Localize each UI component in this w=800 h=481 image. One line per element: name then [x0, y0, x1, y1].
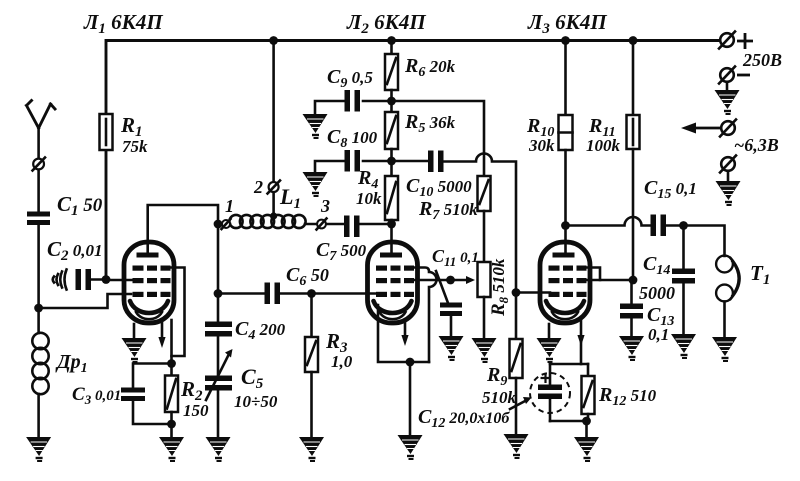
node: cathode / R2 / C3 junction	[167, 359, 176, 368]
wire: tube U3 shield to ground	[548, 324, 551, 338]
potentiometer R8 510k	[478, 262, 491, 297]
node A: antenna/ground rail junction	[34, 304, 43, 313]
svg-text:3: 3	[320, 196, 330, 216]
wire: R4 to anode node	[390, 220, 393, 252]
tube U2 grid rows	[376, 266, 414, 298]
tube U1 cathode arrow	[161, 322, 164, 338]
capacitor C9 0.5	[345, 90, 351, 112]
capacitor C11 0.1	[436, 271, 448, 303]
wire: control grid row to C2 node	[106, 279, 132, 282]
node: coil L1 tap	[270, 212, 277, 219]
capacitor C7 500	[344, 216, 350, 238]
ground	[715, 90, 740, 114]
wire: R9 to ground	[515, 378, 518, 434]
ground	[303, 172, 328, 196]
resistor R1 75k	[100, 114, 113, 150]
svg-text:R8 510k: R8 510k	[488, 258, 511, 317]
svg-text:510k: 510k	[482, 388, 517, 407]
ground	[159, 437, 184, 461]
wire: R3 to ground	[310, 372, 313, 437]
ground	[472, 338, 497, 362]
tube U1 inner heater arc	[136, 312, 162, 319]
capacitor C5 10-50 variable	[205, 376, 232, 382]
resistor R3 1.0	[305, 337, 318, 372]
wire: minus terminal to ground	[726, 82, 729, 90]
wire: C13 to ground	[630, 319, 633, 337]
node: R2 bottom junction	[167, 420, 176, 429]
wire: R2 bottom to ground	[170, 412, 173, 437]
tube U3 inner heater arc	[552, 312, 578, 319]
wire: antenna lead	[37, 128, 40, 212]
node: screen / C13 junction	[629, 276, 638, 285]
antenna	[27, 101, 56, 129]
label: minus sign	[737, 74, 750, 77]
svg-text:150: 150	[183, 401, 209, 420]
resistor R7 510k	[478, 176, 491, 211]
resistor R11 100k	[627, 115, 640, 149]
wire: junction to ground	[409, 362, 412, 435]
svg-text:C11 0,1: C11 0,1	[432, 246, 479, 269]
svg-text:30k: 30k	[528, 136, 555, 155]
wire: tube U3 cathode lead with arrow	[580, 320, 583, 364]
terminal 2 of coil L1	[269, 182, 279, 192]
svg-text:Л3 6К4П: Л3 6К4П	[527, 10, 607, 37]
svg-text:250В: 250В	[742, 50, 782, 70]
svg-text:Л2 6К4П: Л2 6К4П	[346, 10, 426, 37]
resistor R4 10k	[385, 176, 398, 220]
wire: C8 to ground	[315, 161, 345, 172]
capacitor C10 5000	[428, 151, 434, 173]
ground	[671, 334, 696, 358]
wire: bus down to R10	[564, 41, 567, 116]
wire: T1 to ground	[723, 302, 726, 338]
wire: beam row into bracket	[587, 279, 601, 282]
ground	[26, 437, 51, 461]
node: bus junction to coil tap (terminal 2)	[269, 36, 278, 45]
node: tube 3 grid / R9 junction	[512, 288, 521, 297]
ground	[303, 114, 328, 138]
terminal 1 of coil L1	[218, 223, 230, 226]
svg-text:5000: 5000	[639, 283, 675, 303]
svg-text:C2 0,01: C2 0,01	[47, 237, 103, 264]
wire: cathode loop below tube	[378, 305, 429, 362]
ground	[712, 337, 737, 361]
resistor R10 30k	[559, 115, 573, 150]
wire: C10 right with hop over R7 line, to R9 column	[444, 154, 517, 293]
wire: C3 bottom to R2 bottom	[133, 401, 172, 424]
capacitor C3 0.01	[121, 388, 145, 393]
node: tube 2 anode / C7 junction	[387, 220, 396, 229]
resistor R6 20k	[385, 54, 398, 90]
resistor R12 510	[587, 364, 590, 376]
tube U3 anode bar	[553, 253, 575, 258]
tube U2 cathode arrow	[404, 322, 407, 336]
wire: tank node to C6	[218, 292, 265, 295]
capacitor C4 200	[205, 322, 232, 328]
svg-text:1,0: 1,0	[331, 352, 353, 371]
wire: terminal 2 drop from bus	[272, 41, 275, 216]
ground	[537, 338, 562, 362]
wire: +250V supply bus	[106, 41, 720, 280]
svg-text:10÷50: 10÷50	[234, 392, 278, 411]
svg-text:0,1: 0,1	[648, 325, 669, 344]
svg-text:C3 0,01: C3 0,01	[72, 384, 121, 407]
wire: cathode lead down to R2	[170, 320, 173, 375]
wire: beam row to R8 wiper arrow	[414, 279, 466, 282]
wire: bus down to R6	[390, 41, 393, 55]
node: output junction	[679, 221, 688, 230]
wire: screen node down to C13	[630, 280, 633, 304]
svg-text:2: 2	[253, 177, 263, 197]
resistor R2 150	[165, 376, 178, 413]
wire: C2 to grid junction	[91, 278, 106, 281]
tube U1 (L1 6K4P) envelope	[124, 242, 174, 323]
tube U3 cathode arc	[546, 301, 584, 313]
wire: junction to tube 3 grid row	[516, 291, 550, 294]
capacitor C1 50	[27, 212, 50, 217]
terminal: 6.3V heater plug grounded	[721, 157, 735, 171]
svg-text:10k: 10k	[356, 189, 382, 208]
wire: screen grid row to cathode line	[168, 268, 185, 357]
tube U2 (L2 6K4P) envelope	[368, 242, 418, 323]
wire: heater terminal to ground	[727, 171, 730, 181]
node: C11 junction on wiper wire	[446, 276, 455, 285]
wire: junction right to C10	[392, 160, 429, 163]
svg-text:C1 50: C1 50	[57, 192, 103, 219]
wire: junction down to R9	[515, 293, 518, 340]
terminal: +250V plug	[720, 33, 734, 47]
wire: R11 down to screen node	[632, 149, 635, 280]
wire: C11 to ground	[450, 316, 453, 336]
capacitor C14 5000	[672, 269, 695, 275]
ground	[504, 434, 529, 458]
wire: C9 to ground	[315, 101, 345, 114]
wire: C15 to output node	[666, 224, 684, 227]
tube U2 cathode arc	[374, 301, 412, 313]
wire: screen row right with hop down to cathode loop	[414, 268, 437, 363]
capacitor C13 0.1	[620, 304, 643, 310]
ground	[574, 437, 599, 461]
wire: screen bracket to R11 node	[587, 268, 634, 281]
node: cathode ground junction	[406, 358, 415, 367]
ground	[716, 181, 741, 205]
wire: C7 to tube 2 anode node	[360, 223, 392, 226]
wire: tube U1 anode to coil terminal 1	[148, 205, 218, 253]
tube U1 grid rows	[133, 266, 171, 298]
node: cathode network ground junction	[582, 417, 591, 426]
wire: R6 junction right to R7	[392, 101, 485, 176]
wire: C14 to ground	[682, 284, 685, 335]
node: grid / R3 junction	[307, 289, 316, 298]
node: tank / C6 junction	[214, 289, 223, 298]
ground	[122, 338, 147, 362]
wire: choke to ground	[37, 394, 40, 437]
wire: R6 to R5	[390, 90, 393, 112]
wire: C6 to tube 2 grid	[280, 292, 377, 295]
wire: cathode network bottom rail	[550, 420, 588, 423]
tube U2 anode bar	[380, 253, 402, 258]
wire: anode to C15 with hop over R11 line	[566, 217, 652, 226]
node: R5/R4/C8/C10 junction	[387, 157, 396, 166]
wire: junction left to C9	[363, 100, 392, 103]
wire: R8 to ground	[483, 297, 486, 338]
chassis arcs at C2 input	[53, 270, 67, 290]
wire: C5 to ground	[217, 391, 220, 438]
wire: C12 label pointer arrow	[510, 400, 527, 409]
wire: terminal 3 lead to C7	[305, 223, 344, 226]
wire: R10 to anode node	[564, 150, 567, 252]
wire: C1 to lower node	[37, 225, 40, 333]
svg-text:100k: 100k	[586, 136, 621, 155]
node: bus junction to R10	[561, 36, 570, 45]
terminal 3 of coil L1	[317, 220, 326, 229]
wire: tube U1 shield to ground	[133, 324, 136, 338]
node: tube 3 anode / C15 junction	[561, 221, 570, 230]
tube U1 cathode arc	[130, 301, 168, 313]
tube U3 grid rows	[549, 266, 587, 298]
resistor R9 510k	[510, 339, 523, 378]
node: bus junction to R11	[629, 36, 638, 45]
resistor R5 36k	[385, 112, 398, 149]
wire: R5 to R4	[390, 149, 393, 176]
svg-text:~6,3В: ~6,3В	[734, 135, 779, 155]
tube U1 anode bar	[137, 253, 159, 258]
wire: C4 to C5	[217, 337, 220, 377]
capacitor C12 electrolytic 20uF	[530, 373, 570, 413]
inductor Dr1 (choke)	[32, 333, 48, 394]
wire: junction to ground	[585, 421, 588, 437]
tube U3 (L3 6K4P) envelope	[540, 242, 590, 323]
wire: output node to phones T1	[684, 226, 725, 257]
node: bus junction to R6 chain	[387, 36, 396, 45]
label: plus sign	[737, 33, 753, 49]
wire: R7 to R8	[483, 211, 486, 262]
node: R6/R5/C9 junction	[387, 97, 396, 106]
wire: bus down to R11	[632, 41, 635, 116]
terminal: 6.3V heater plug with arrow	[721, 121, 735, 135]
wire: output node down to C14	[682, 226, 685, 270]
svg-text:1: 1	[225, 196, 234, 216]
wire: junction left to C3	[133, 364, 172, 389]
svg-text:Л1 6К4П: Л1 6К4П	[83, 10, 163, 37]
ground	[398, 435, 423, 459]
tube U2 inner heater arc	[380, 312, 406, 319]
ground	[439, 336, 464, 360]
ground	[619, 336, 644, 360]
capacitor C15 0.1	[651, 215, 657, 237]
node: anode / terminal 1 junction	[214, 220, 223, 229]
wire: junction down to R3	[310, 294, 313, 338]
wire: junction left to C8	[363, 160, 392, 163]
svg-text:75k: 75k	[122, 137, 148, 156]
capacitor C8 100	[345, 150, 351, 172]
ground	[206, 437, 231, 461]
wire: terminal 1 node down to tank junction	[217, 224, 220, 322]
terminal: antenna plug	[33, 159, 44, 170]
inductor L1	[229, 215, 305, 228]
ground	[299, 437, 324, 461]
transducer T1 headphones	[716, 256, 733, 273]
wire: junction to tube 1 grid-3 row	[39, 294, 131, 308]
wire: cathode network top rail	[550, 363, 588, 366]
terminal: -250V plug	[720, 68, 734, 82]
capacitor C2 0.01	[76, 269, 82, 290]
node: grid of tube 1 / R1 bottom	[102, 275, 111, 284]
capacitor C6 50	[265, 283, 271, 305]
